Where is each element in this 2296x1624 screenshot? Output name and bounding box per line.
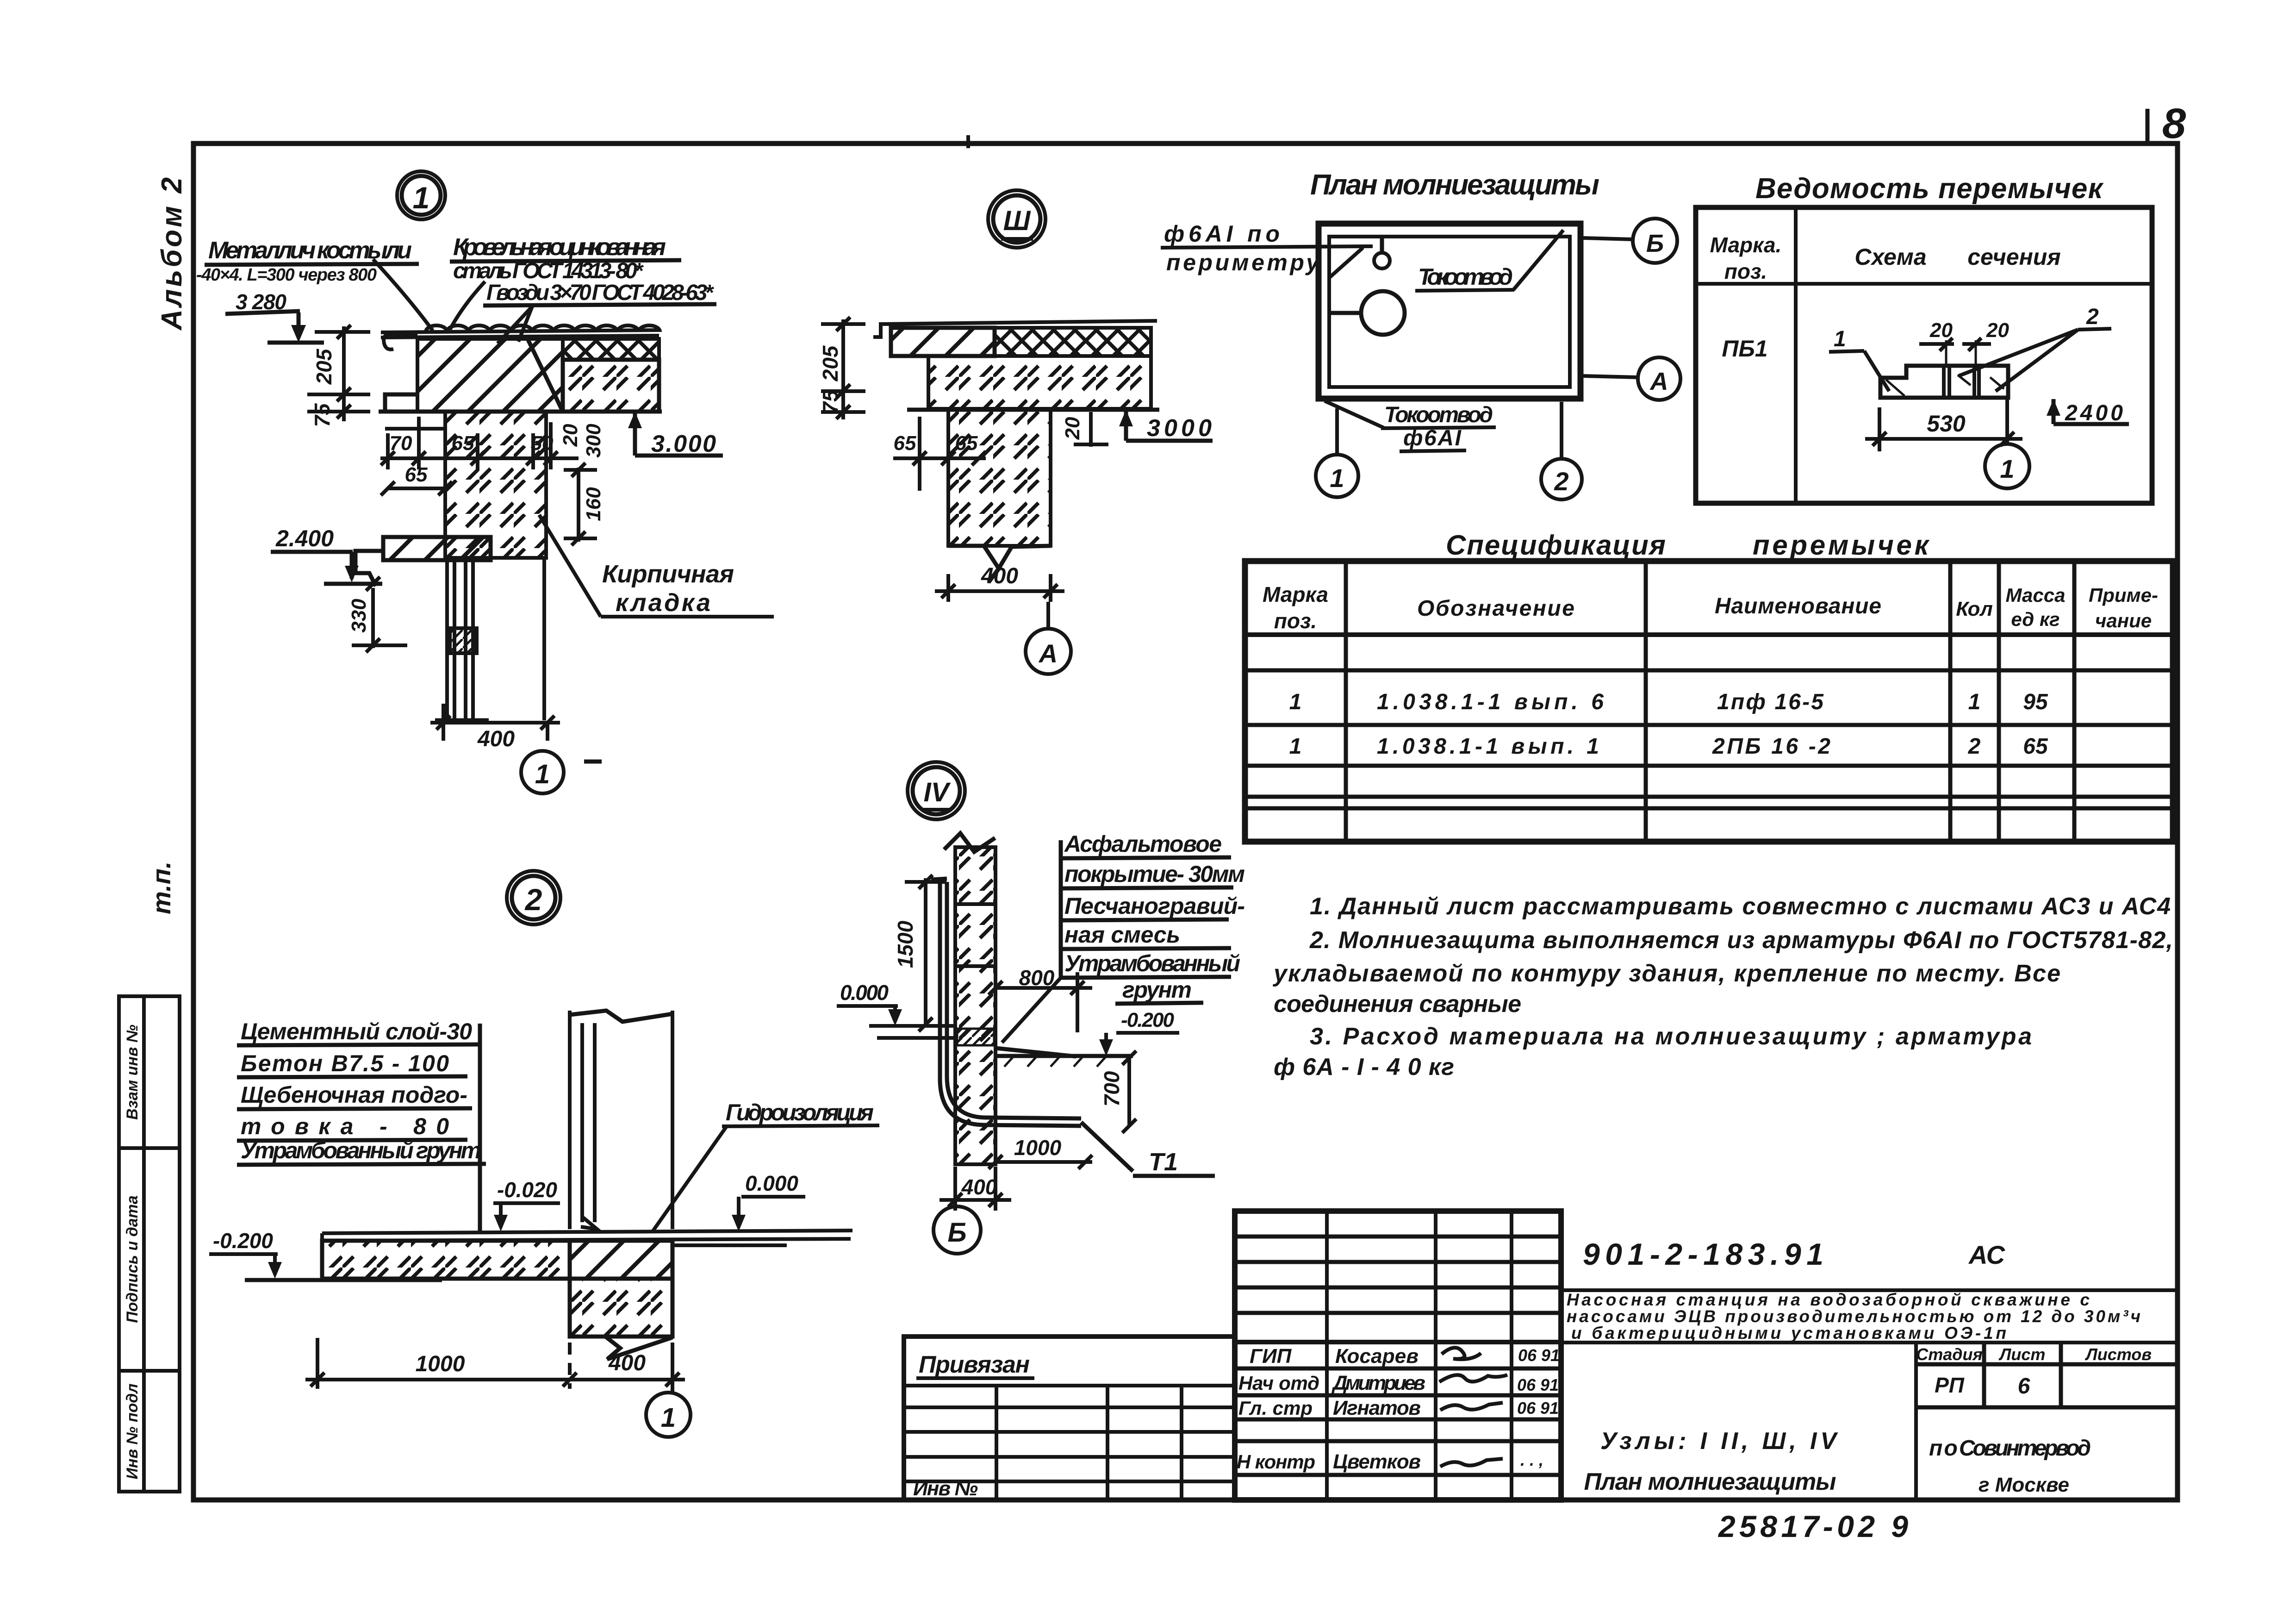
svg-text:06 91: 06 91 [1517, 1399, 1559, 1418]
svg-text:400: 400 [477, 727, 515, 751]
svg-text:п о Совинтервод: п о Совинтервод [1929, 1436, 2091, 1461]
svg-text:0.000: 0.000 [745, 1171, 798, 1195]
svg-text:1500: 1500 [893, 920, 917, 968]
svg-text:Бетон В7.5 - 100: Бетон В7.5 - 100 [241, 1050, 449, 1076]
svg-text:20: 20 [1929, 319, 1953, 342]
svg-text:Взам инв №: Взам инв № [124, 1024, 141, 1120]
svg-text:План молниезащиты: План молниезащиты [1310, 169, 1599, 201]
svg-text:1000: 1000 [1014, 1136, 1062, 1160]
svg-text:Стадия: Стадия [1916, 1345, 1982, 1364]
svg-text:65: 65 [894, 432, 916, 455]
svg-text:Приме-: Приме- [2089, 584, 2158, 606]
svg-text:0.000: 0.000 [840, 981, 889, 1005]
svg-text:Песчаногравий-: Песчаногравий- [1064, 893, 1245, 919]
svg-text:Цветков: Цветков [1333, 1450, 1421, 1473]
svg-text:75: 75 [310, 403, 334, 427]
svg-text:АС: АС [1968, 1240, 2006, 1269]
svg-text:901-2-183.91: 901-2-183.91 [1583, 1237, 1823, 1271]
svg-text:Марка: Марка [1263, 582, 1328, 606]
svg-text:г Москве: г Москве [1979, 1474, 2069, 1496]
svg-text:20: 20 [1061, 417, 1084, 440]
svg-text:2.400: 2.400 [275, 525, 334, 551]
svg-text:РП: РП [1935, 1373, 1965, 1397]
svg-text:160: 160 [582, 487, 605, 521]
svg-text:ГИП: ГИП [1250, 1345, 1292, 1368]
svg-text:2ПБ 16 -2: 2ПБ 16 -2 [1712, 734, 1830, 759]
svg-text:2: 2 [1554, 467, 1568, 496]
svg-text:товка - 80: товка - 80 [241, 1113, 449, 1139]
svg-text:ПБ1: ПБ1 [1722, 336, 1767, 362]
svg-text:06 91: 06 91 [1518, 1346, 1560, 1365]
svg-text:300: 300 [582, 424, 605, 458]
svg-text:2: 2 [524, 882, 542, 917]
svg-text:Кол: Кол [1956, 598, 1993, 620]
svg-text:1: 1 [1289, 690, 1302, 714]
svg-text:Б: Б [947, 1218, 966, 1248]
svg-text:Т1: Т1 [1149, 1148, 1178, 1176]
svg-text:План молниезащиты: План молниезащиты [1584, 1468, 1836, 1495]
svg-text:400: 400 [981, 564, 1018, 588]
svg-text:Насосная станция на водозаб: Насосная станция на водозаборной скважин… [1567, 1290, 2090, 1309]
svg-text:Кирпичная: Кирпичная [602, 560, 734, 588]
svg-text:2. Молниезащита выполняется: 2. Молниезащита выполняется из арматуры … [1309, 927, 2173, 954]
svg-text:Инв №: Инв № [913, 1477, 978, 1500]
svg-text:95: 95 [2023, 690, 2048, 714]
svg-text:400: 400 [608, 1351, 646, 1375]
svg-text:ф6АI: ф6АI [1403, 426, 1462, 450]
svg-text:1: 1 [1330, 463, 1344, 493]
svg-text:покрытие- 30мм: покрытие- 30мм [1064, 861, 1245, 887]
svg-text:Б: Б [1646, 230, 1664, 257]
svg-text:25817-02 9: 25817-02 9 [1717, 1509, 1908, 1543]
svg-text:205: 205 [818, 345, 842, 381]
svg-text:-0.020: -0.020 [497, 1178, 557, 1202]
svg-text:1: 1 [1289, 734, 1302, 759]
svg-text:Токоотвод: Токоотвод [1418, 264, 1513, 290]
svg-text:65: 65 [405, 463, 428, 486]
svg-text:Кровельная оцинкованная: Кровельная оцинкованная [453, 234, 666, 261]
svg-text:70: 70 [390, 432, 412, 455]
svg-text:6: 6 [2018, 1374, 2030, 1399]
svg-text:грунт: грунт [1122, 977, 1192, 1003]
svg-text:330: 330 [348, 599, 370, 633]
svg-text:2: 2 [1968, 734, 1981, 759]
svg-text:Асфальтовое: Асфальтовое [1064, 831, 1222, 857]
svg-text:1: 1 [413, 181, 430, 215]
svg-text:А: А [1038, 639, 1058, 668]
svg-text:1000: 1000 [416, 1352, 465, 1376]
svg-text:поз.: поз. [1724, 259, 1767, 283]
svg-text:Ш: Ш [1003, 205, 1031, 236]
svg-text:Инв № подл: Инв № подл [124, 1383, 141, 1479]
svg-text:Масса: Масса [2006, 584, 2066, 606]
svg-text:700: 700 [1100, 1071, 1124, 1106]
svg-text:06 91: 06 91 [1517, 1375, 1559, 1394]
svg-text:1: 1 [535, 759, 550, 789]
svg-text:65: 65 [955, 432, 978, 455]
svg-text:65: 65 [452, 432, 474, 455]
svg-text:2: 2 [2086, 305, 2099, 329]
svg-text:1: 1 [1968, 690, 1981, 714]
svg-text:Обозначение: Обозначение [1417, 596, 1574, 621]
svg-text:1: 1 [661, 1403, 676, 1433]
svg-text:Утрамбованный грунт: Утрамбованный грунт [241, 1137, 481, 1163]
svg-text:3.000: 3.000 [651, 431, 716, 457]
svg-text:20: 20 [559, 424, 582, 447]
svg-text:-0.200: -0.200 [213, 1229, 273, 1253]
svg-text:Наименование: Наименование [1715, 594, 1881, 618]
svg-text:Игнатов: Игнатов [1333, 1397, 1421, 1419]
svg-text:Щебеночная подго-: Щебеночная подго- [241, 1082, 467, 1108]
svg-text:Листов: Листов [2084, 1345, 2152, 1364]
svg-text:1: 1 [2000, 454, 2014, 483]
svg-text:Токоотвод: Токоотвод [1384, 403, 1493, 427]
svg-text:Косарев: Косарев [1335, 1345, 1419, 1368]
svg-text:Утрамбованный: Утрамбованный [1064, 950, 1240, 976]
svg-text:Схема: Схема [1854, 244, 1926, 270]
svg-text:соединения сварные: соединения сварные [1274, 991, 1521, 1018]
svg-text:ная смесь: ная смесь [1064, 922, 1180, 948]
svg-text:Лист: Лист [1998, 1345, 2046, 1364]
svg-text:периметру: периметру [1166, 250, 1320, 275]
svg-text:Гидроизоляция: Гидроизоляция [726, 1099, 874, 1125]
svg-text:сечения: сечения [1967, 244, 2061, 270]
svg-text:поз.: поз. [1274, 609, 1317, 633]
svg-text:-0.200: -0.200 [1121, 1009, 1175, 1031]
svg-text:. . ,: . . , [1520, 1450, 1543, 1469]
svg-text:ед кг: ед кг [2011, 608, 2060, 630]
svg-text:-40×4. L=300 через 800: -40×4. L=300 через 800 [196, 265, 377, 285]
svg-text:Гвозди 3×70 ГОСТ 4028-63*: Гвозди 3×70 ГОСТ 4028-63* [486, 281, 714, 305]
svg-text:перемычек: перемычек [1753, 530, 1930, 561]
svg-text:Ведомость перемычек: Ведомость перемычек [1755, 173, 2104, 205]
svg-text:Спецификация: Спецификация [1446, 530, 1666, 561]
svg-text:3. Расход материала на м: 3. Расход материала на молниезащиту ; ар… [1310, 1023, 2032, 1050]
svg-text:20: 20 [1986, 319, 2009, 342]
svg-text:1: 1 [1834, 327, 1846, 351]
svg-text:IV: IV [924, 777, 951, 807]
svg-text:Подпись и дата: Подпись и дата [124, 1195, 141, 1323]
svg-text:530: 530 [1927, 411, 1966, 437]
svg-text:ф 6А - I - 4 0 кг: ф 6А - I - 4 0 кг [1274, 1054, 1454, 1081]
svg-text:Дмитриев: Дмитриев [1331, 1372, 1425, 1394]
svg-text:чание: чание [2095, 610, 2152, 631]
svg-text:Металлич костыли: Металлич костыли [208, 237, 412, 264]
svg-text:Привязан: Привязан [919, 1351, 1030, 1378]
svg-text:укладываемой по контуру зда: укладываемой по контуру здания, креплени… [1272, 960, 2060, 987]
svg-text:205: 205 [312, 348, 336, 385]
svg-text:т.п.: т.п. [147, 862, 176, 914]
svg-text:Гл. стр: Гл. стр [1238, 1397, 1313, 1419]
svg-text:сталь ГОСТ 14313- 80*: сталь ГОСТ 14313- 80* [453, 259, 644, 283]
svg-text:Нач отд: Нач отд [1238, 1372, 1319, 1394]
svg-text:1пф 16-5: 1пф 16-5 [1717, 690, 1824, 714]
svg-text:65: 65 [2023, 734, 2048, 759]
svg-text:А: А [1649, 368, 1668, 395]
svg-text:Н контр: Н контр [1237, 1451, 1315, 1473]
svg-text:50: 50 [531, 432, 554, 455]
svg-text:400: 400 [961, 1175, 997, 1199]
svg-text:8: 8 [2162, 100, 2186, 147]
svg-text:Цементный слой-30: Цементный слой-30 [241, 1018, 472, 1044]
svg-text:Марка.: Марка. [1710, 233, 1782, 257]
svg-text:75: 75 [818, 389, 842, 414]
